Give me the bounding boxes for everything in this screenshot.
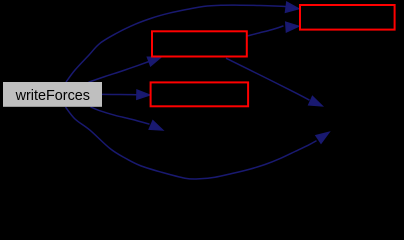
arrowhead into hidden right node from bottom curve (316, 132, 330, 144)
wire writeForces to middle-top node (89, 62, 150, 83)
arrowhead into top-right node from middle-top node (286, 22, 300, 32)
node writeForces (gray) (3, 82, 102, 107)
arrowhead into hidden right node from middle-top node (308, 96, 322, 106)
arrowhead into top-right node from writeForces (285, 2, 299, 13)
arrowhead into middle-top node (147, 57, 161, 66)
wire middle-top node to top-right node (247, 26, 284, 36)
node middle-bottom (red box) (151, 82, 249, 106)
wire writeForces long bottom curve to hidden right node (66, 107, 317, 179)
node top-right (red box) (300, 5, 395, 30)
arrowhead into hidden lower node (149, 120, 163, 130)
wire writeForces to middle-bottom node (102, 93, 137, 95)
wire writeForces to top-right node (66, 5, 287, 82)
wire middle-top node to hidden right node (226, 58, 310, 100)
svg-text:writeForces: writeForces (15, 88, 90, 104)
wire writeForces to hidden lower node (91, 107, 150, 124)
arrowhead into middle-bottom node (137, 90, 151, 100)
node middle-top (red box) (152, 31, 247, 56)
